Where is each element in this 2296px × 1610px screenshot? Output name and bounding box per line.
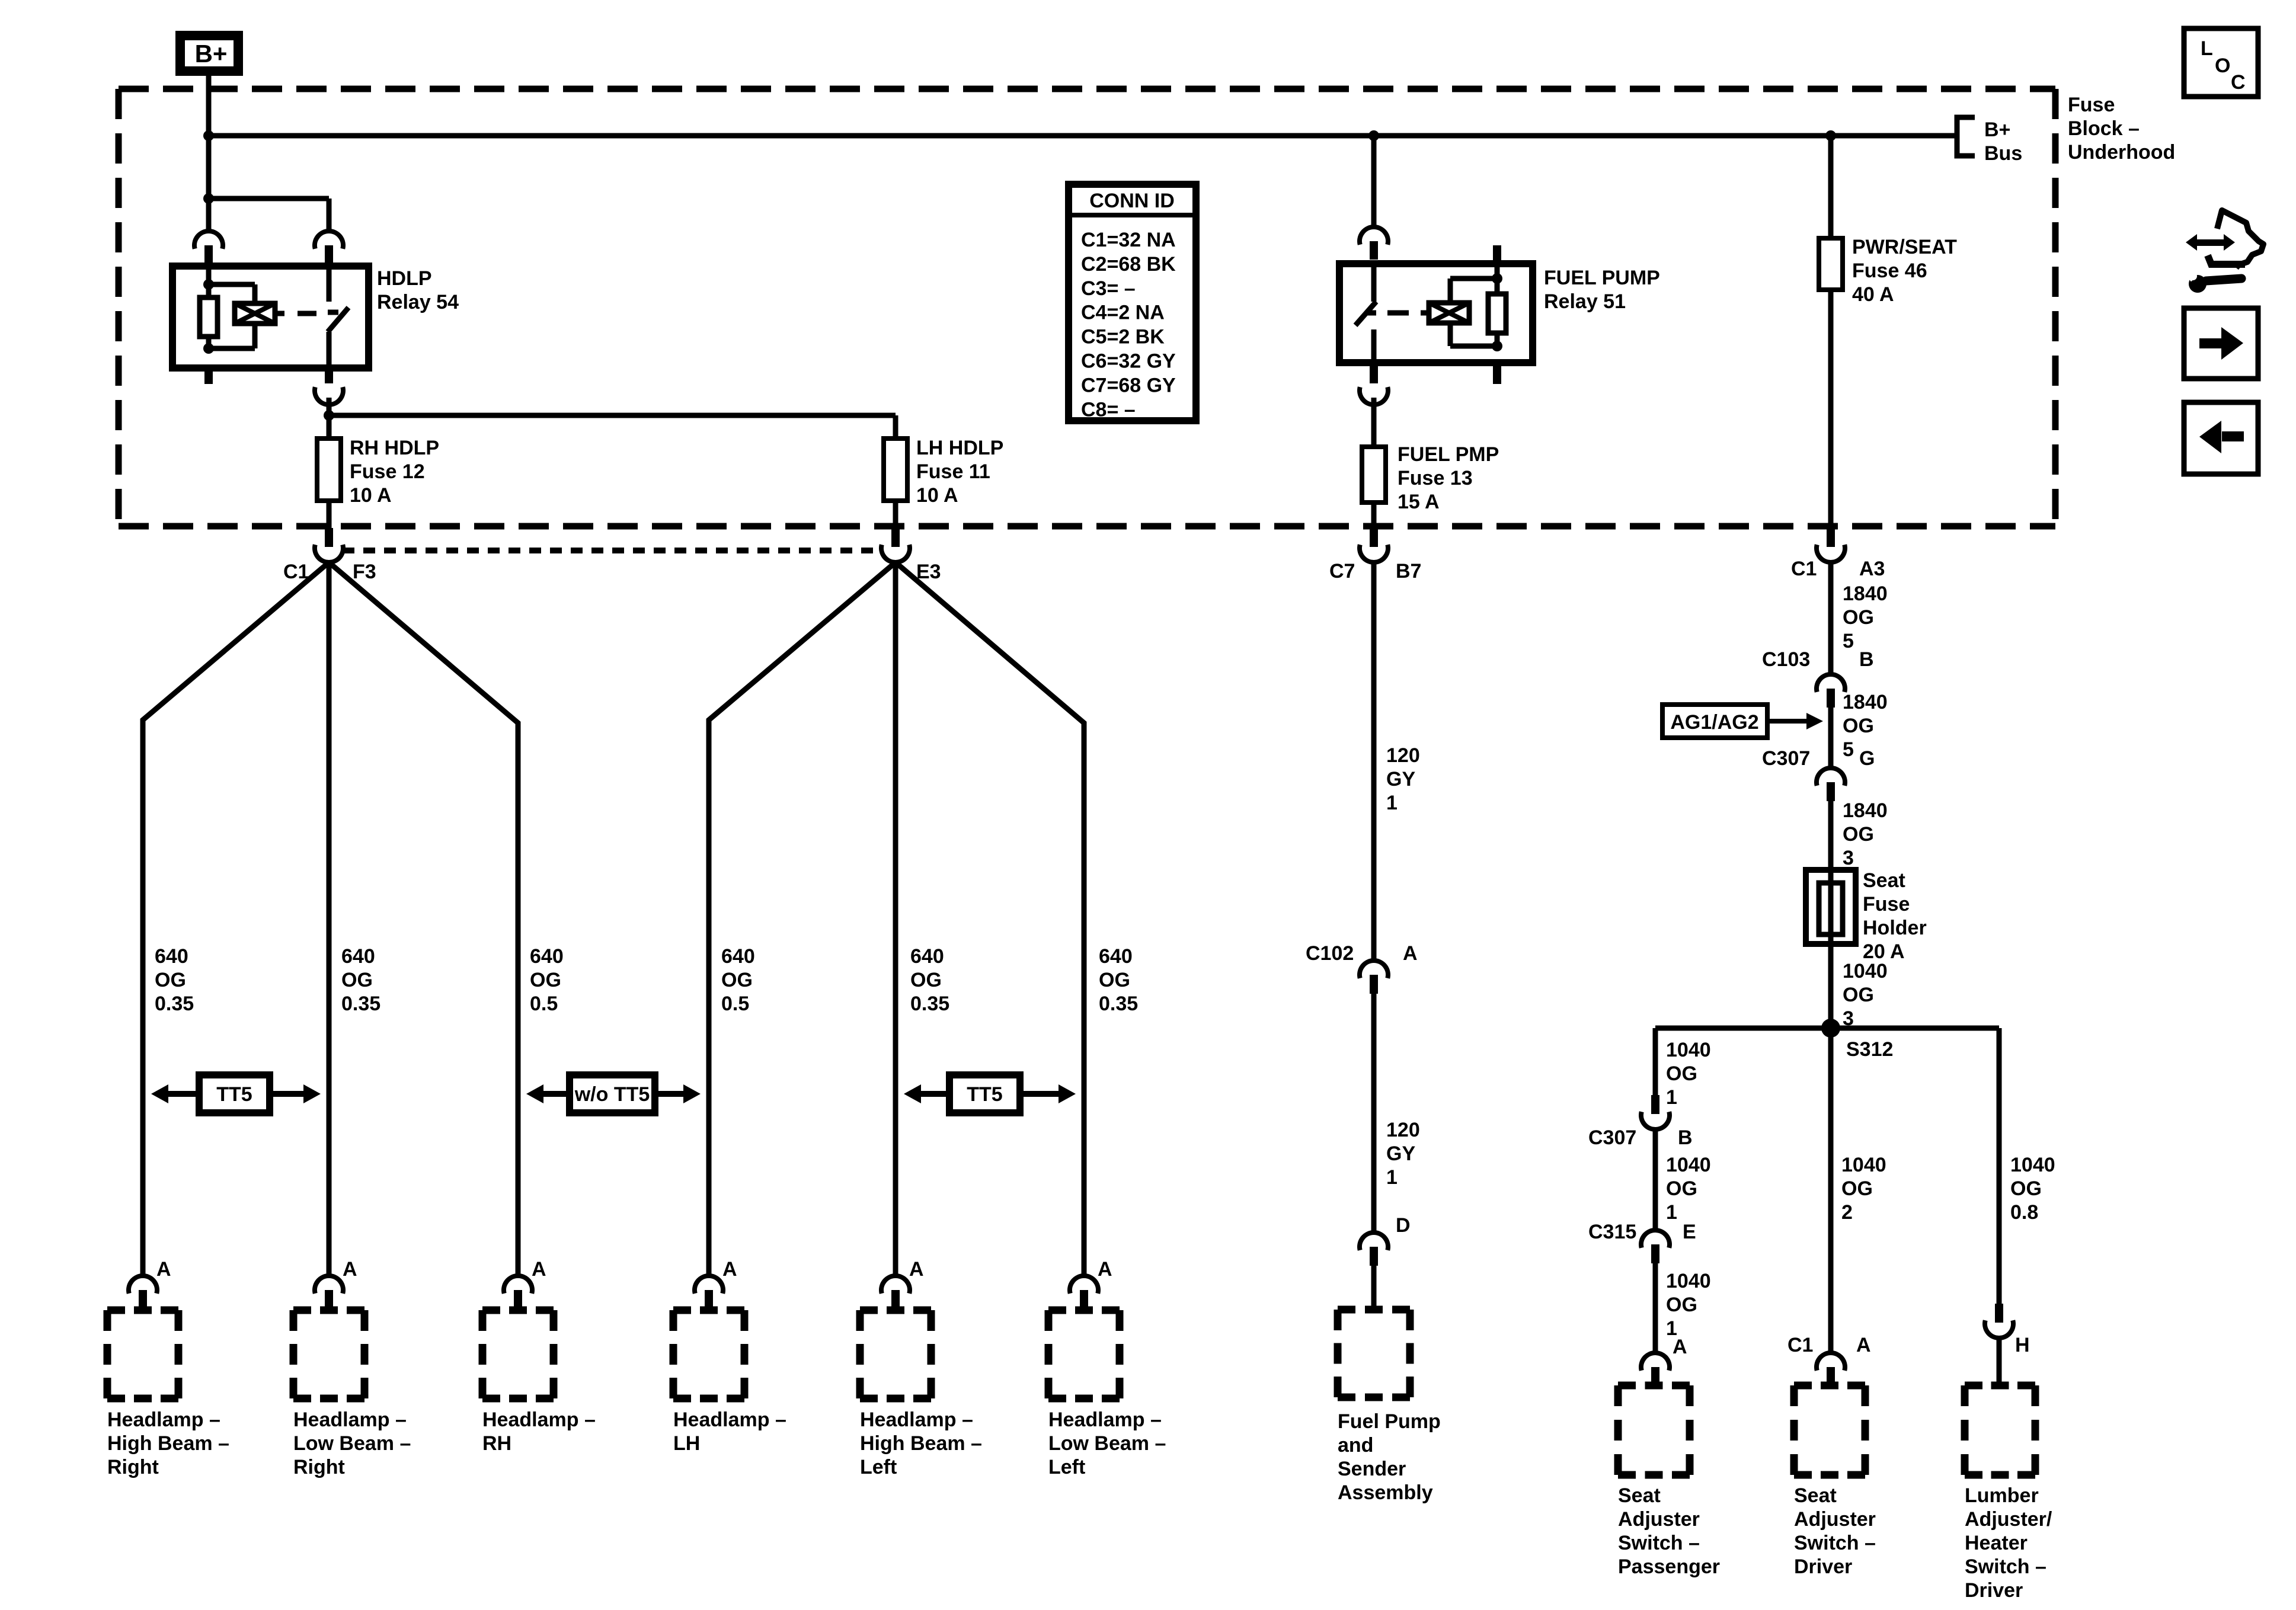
svg-text:C1=32 NA: C1=32 NA	[1081, 229, 1176, 251]
svg-text:10 A: 10 A	[350, 484, 392, 507]
connector C102 A	[1360, 961, 1388, 978]
svg-text:OG: OG	[721, 969, 753, 991]
main bus wire	[209, 133, 1955, 139]
option arrow w/o TT5	[541, 1091, 686, 1097]
svg-text:1840: 1840	[1843, 582, 1888, 605]
HDLP relay left pin stub below	[204, 364, 213, 384]
svg-text:640: 640	[721, 945, 755, 968]
svg-text:Headlamp –: Headlamp –	[107, 1409, 220, 1431]
svg-text:0.35: 0.35	[155, 993, 194, 1015]
dotted connector line C1-E3	[343, 548, 882, 553]
svg-text:5: 5	[1843, 738, 1854, 761]
svg-text:OG: OG	[1666, 1062, 1697, 1085]
wire headlamp low beam right	[327, 561, 332, 1276]
svg-text:C6=32 GY: C6=32 GY	[1081, 350, 1176, 373]
wire headlamp LH	[709, 562, 896, 1276]
component box Headlamp Low Beam Right	[293, 1310, 364, 1398]
resistor FUEL PUMP relay	[1488, 294, 1506, 333]
svg-text:OG: OG	[341, 969, 373, 991]
svg-text:Seat: Seat	[1794, 1484, 1837, 1507]
junction coil bottom	[1492, 341, 1502, 351]
previous-page arrow box	[2184, 402, 2258, 474]
svg-text:OG: OG	[1666, 1294, 1697, 1316]
svg-text:0.8: 0.8	[2010, 1201, 2038, 1224]
svg-text:Headlamp –: Headlamp –	[1048, 1409, 1162, 1431]
svg-text:Adjuster: Adjuster	[1618, 1508, 1700, 1531]
svg-text:High Beam –: High Beam –	[860, 1432, 982, 1455]
wire to seat fuse holder	[1828, 801, 1834, 1028]
svg-text:A: A	[1673, 1336, 1687, 1358]
junction B+/bus	[203, 130, 214, 141]
connector A Headlamp Low Beam Left	[1070, 1276, 1098, 1294]
wire headlamp high beam right	[143, 562, 329, 1276]
svg-text:C4=2 NA: C4=2 NA	[1081, 302, 1165, 324]
connector below FUEL PUMP relay	[1360, 387, 1388, 405]
svg-text:0.35: 0.35	[1099, 993, 1138, 1015]
svg-text:640: 640	[530, 945, 564, 968]
wire to passenger switch	[1653, 1263, 1658, 1353]
connector D	[1360, 1233, 1388, 1250]
component box Fuel Pump and Sender Assembly	[1338, 1310, 1410, 1397]
svg-text:A3: A3	[1859, 558, 1885, 580]
svg-text:120: 120	[1386, 1119, 1420, 1141]
HDLP relay coil-switch dashed link	[275, 311, 284, 316]
svg-text:C103: C103	[1762, 648, 1810, 671]
svg-text:OG: OG	[155, 969, 186, 991]
svg-text:OG: OG	[1843, 715, 1874, 737]
relay box HDLP Relay 54	[172, 266, 369, 368]
relay box FUEL PUMP Relay 51	[1339, 264, 1533, 363]
resistor HDLP relay	[200, 297, 218, 337]
svg-text:Assembly: Assembly	[1338, 1481, 1433, 1504]
fuse LH HDLP Fuse 11	[884, 438, 907, 501]
svg-text:0.35: 0.35	[910, 993, 949, 1015]
wire branch to relay switch pin	[209, 196, 329, 201]
svg-text:HDLP: HDLP	[377, 267, 432, 290]
svg-text:Bus: Bus	[1984, 142, 2022, 165]
svg-text:H: H	[2015, 1334, 2030, 1356]
svg-text:0.5: 0.5	[530, 993, 558, 1015]
svg-text:1040: 1040	[1843, 960, 1888, 982]
connector C1 F3	[325, 528, 333, 547]
svg-text:RH HDLP: RH HDLP	[350, 437, 439, 459]
svg-text:E: E	[1683, 1221, 1696, 1243]
HDLP relay switch fixed pin	[327, 270, 332, 302]
svg-text:Fuse 13: Fuse 13	[1398, 467, 1473, 489]
svg-text:OG: OG	[1843, 984, 1874, 1006]
FUEL PUMP relay switch output wire	[1371, 329, 1377, 363]
svg-text:OG: OG	[1099, 969, 1130, 991]
wire to C102	[1371, 561, 1377, 961]
fuse RH HDLP Fuse 12	[317, 438, 341, 501]
svg-text:Underhood: Underhood	[2068, 141, 2175, 164]
svg-text:GY: GY	[1386, 1142, 1415, 1165]
svg-text:F3: F3	[353, 561, 376, 583]
connector C307 G	[1817, 768, 1845, 786]
fuse PWR/SEAT Fuse 46	[1819, 238, 1843, 290]
fuse block underhood dashed border	[119, 89, 2055, 526]
svg-text:10 A: 10 A	[916, 484, 958, 507]
wire fuse 11 to E3	[893, 501, 898, 528]
svg-text:Driver: Driver	[1794, 1555, 1852, 1578]
next-page arrow box	[2184, 308, 2258, 379]
HDLP relay right pin below box	[325, 364, 333, 383]
svg-text:2: 2	[1841, 1201, 1853, 1224]
AG1/AG2 reference box	[1662, 705, 1767, 738]
connector C103 B	[1817, 674, 1845, 692]
wire to C307	[1828, 708, 1834, 768]
svg-text:1: 1	[1386, 1166, 1398, 1189]
svg-text:Fuse 12: Fuse 12	[350, 460, 425, 483]
svg-text:A: A	[722, 1258, 737, 1281]
svg-text:OG: OG	[910, 969, 942, 991]
svg-text:1: 1	[1666, 1201, 1677, 1224]
junction seat/bus	[1825, 130, 1836, 141]
splice S312	[1821, 1019, 1840, 1038]
svg-text:Fuel Pump: Fuel Pump	[1338, 1410, 1441, 1433]
svg-text:OG: OG	[2010, 1177, 2042, 1200]
svg-text:Sender: Sender	[1338, 1458, 1406, 1480]
svg-text:RH: RH	[482, 1432, 511, 1455]
FUEL PUMP relay right pin stub above	[1493, 245, 1501, 264]
svg-text:C2=68 BK: C2=68 BK	[1081, 253, 1176, 276]
wire fuse 46 to border	[1828, 290, 1834, 528]
svg-text:120: 120	[1386, 744, 1420, 767]
connector HDLP relay pin right	[315, 231, 343, 249]
wire junction to RH fuse	[327, 415, 332, 438]
svg-text:1840: 1840	[1843, 691, 1888, 713]
connector C307 B	[1651, 1095, 1659, 1114]
component box Headlamp High Beam Right	[107, 1310, 178, 1398]
svg-text:Fuse 46: Fuse 46	[1852, 260, 1927, 282]
svg-text:Headlamp –: Headlamp –	[293, 1409, 407, 1431]
component box Lumber Adjuster Heater Switch Driver	[1965, 1385, 2035, 1475]
svg-text:S312: S312	[1846, 1038, 1893, 1061]
svg-text:A: A	[156, 1258, 171, 1281]
svg-text:B7: B7	[1396, 560, 1421, 582]
svg-text:CONN ID: CONN ID	[1089, 190, 1175, 212]
svg-text:1: 1	[1666, 1086, 1677, 1109]
svg-text:15 A: 15 A	[1398, 491, 1440, 513]
service info icon outline	[2217, 210, 2263, 268]
svg-text:High Beam –: High Beam –	[107, 1432, 229, 1455]
svg-text:Low Beam –: Low Beam –	[1048, 1432, 1166, 1455]
svg-text:C: C	[2231, 71, 2246, 94]
wire to lumber switch	[1997, 1028, 2002, 1304]
svg-text:C1: C1	[1791, 558, 1817, 580]
svg-text:C1: C1	[1787, 1334, 1813, 1356]
svg-text:Switch –: Switch –	[1965, 1555, 2046, 1578]
component box Seat Adjuster Switch Driver	[1794, 1385, 1865, 1475]
svg-text:Block –: Block –	[2068, 117, 2140, 140]
HDLP relay switch blade	[328, 308, 348, 332]
svg-text:5: 5	[1843, 630, 1854, 652]
svg-text:OG: OG	[1841, 1177, 1873, 1200]
CONN ID table	[1069, 184, 1196, 421]
connector below HDLP relay	[315, 387, 343, 405]
svg-text:FUEL PUMP: FUEL PUMP	[1544, 267, 1660, 289]
wire to driver switch	[1828, 1028, 1834, 1353]
svg-text:Headlamp –: Headlamp –	[860, 1409, 973, 1431]
svg-text:A: A	[532, 1258, 546, 1281]
junction HDLP branch	[203, 193, 214, 204]
FUEL PUMP relay coil-switch dashed link	[1421, 311, 1429, 316]
svg-text:Fuse 11: Fuse 11	[916, 460, 990, 483]
svg-text:C8= –: C8= –	[1081, 398, 1136, 421]
svg-text:A: A	[1403, 942, 1418, 965]
svg-text:Adjuster/: Adjuster/	[1965, 1508, 2052, 1531]
svg-text:Relay 54: Relay 54	[377, 291, 459, 313]
svg-text:C5=2 BK: C5=2 BK	[1081, 326, 1165, 348]
coil HDLP relay	[235, 303, 275, 324]
svg-text:Low Beam –: Low Beam –	[293, 1432, 411, 1455]
svg-text:Relay 51: Relay 51	[1544, 290, 1626, 313]
svg-text:LH HDLP: LH HDLP	[916, 437, 1003, 459]
service info icon double arrow	[2186, 234, 2235, 251]
svg-text:1: 1	[1386, 792, 1398, 814]
B+ power symbol	[180, 36, 238, 71]
svg-text:A: A	[1856, 1334, 1871, 1356]
svg-text:O: O	[2215, 55, 2230, 77]
fuse FUEL PMP Fuse 13	[1362, 447, 1386, 502]
svg-text:C307: C307	[1588, 1126, 1636, 1149]
wire relay to junction	[327, 398, 332, 415]
svg-text:D: D	[1396, 1214, 1411, 1237]
svg-text:640: 640	[155, 945, 188, 968]
svg-text:1040: 1040	[1666, 1270, 1711, 1292]
svg-text:Seat: Seat	[1618, 1484, 1661, 1507]
svg-text:Passenger: Passenger	[1618, 1555, 1720, 1578]
connector A Headlamp High Beam Right	[129, 1276, 157, 1294]
junction fuel pump/bus	[1368, 130, 1379, 141]
junction coil top	[1492, 273, 1502, 284]
component box Headlamp LH	[673, 1310, 744, 1398]
connector FUEL PUMP relay pin left	[1360, 227, 1388, 245]
svg-text:OG: OG	[1843, 823, 1874, 846]
connector A driver switch	[1817, 1353, 1845, 1371]
svg-text:Driver: Driver	[1965, 1579, 2023, 1602]
svg-text:Switch –: Switch –	[1618, 1532, 1700, 1554]
FUEL PUMP relay coil branch wires	[1495, 264, 1500, 279]
svg-text:0.5: 0.5	[721, 993, 749, 1015]
svg-text:C315: C315	[1588, 1221, 1636, 1243]
svg-text:B+: B+	[195, 40, 228, 68]
svg-text:OG: OG	[530, 969, 561, 991]
component box Headlamp Low Beam Left	[1048, 1310, 1120, 1398]
svg-text:and: and	[1338, 1434, 1373, 1457]
service info icon wrench	[2206, 279, 2241, 281]
svg-text:Left: Left	[860, 1456, 897, 1478]
junction coil bottom	[203, 343, 214, 354]
svg-text:1040: 1040	[1841, 1154, 1886, 1176]
svg-text:FUEL PMP: FUEL PMP	[1398, 443, 1499, 466]
wire to C103	[1828, 561, 1834, 674]
HDLP relay switch output wire	[327, 332, 332, 364]
FUEL PUMP relay switch blade	[1355, 302, 1376, 325]
svg-text:Left: Left	[1048, 1456, 1085, 1478]
connector C7 B7	[1370, 528, 1378, 547]
svg-text:1840: 1840	[1843, 799, 1888, 822]
svg-text:AG1/AG2: AG1/AG2	[1670, 711, 1758, 734]
LOC reference box	[2184, 28, 2258, 97]
svg-text:3: 3	[1843, 847, 1854, 869]
connector A Headlamp High Beam Left	[881, 1276, 910, 1294]
svg-text:C3= –: C3= –	[1081, 277, 1136, 300]
connector HDLP relay pin left	[194, 231, 223, 249]
B+ Bus bracket	[1957, 117, 1975, 156]
svg-text:640: 640	[910, 945, 944, 968]
option arrow TT5 left	[918, 1091, 1061, 1097]
svg-text:Fuse: Fuse	[2068, 94, 2115, 116]
FUEL PUMP relay left pin below box	[1370, 363, 1378, 383]
svg-text:LH: LH	[673, 1432, 700, 1455]
connector A passenger switch	[1641, 1353, 1670, 1371]
wire fuse 13 to border	[1371, 502, 1377, 528]
svg-text:G: G	[1859, 747, 1875, 770]
svg-text:Seat: Seat	[1863, 869, 1905, 892]
AG1/AG2 arrow	[1767, 719, 1806, 724]
wire headlamp low beam left	[896, 562, 1084, 1276]
svg-text:B: B	[1859, 648, 1874, 671]
wire headlamp RH	[329, 562, 518, 1276]
connector A Headlamp Low Beam Right	[315, 1276, 343, 1294]
svg-text:1040: 1040	[2010, 1154, 2055, 1176]
wire to D	[1371, 994, 1377, 1233]
svg-text:640: 640	[341, 945, 375, 968]
svg-text:C7=68 GY: C7=68 GY	[1081, 374, 1176, 396]
FUEL PUMP relay right pin stub below	[1493, 363, 1501, 384]
svg-text:B+: B+	[1984, 119, 2010, 141]
FUEL PUMP relay switch fixed pin	[1371, 267, 1377, 302]
svg-text:Right: Right	[293, 1456, 345, 1478]
svg-text:Adjuster: Adjuster	[1794, 1508, 1876, 1531]
svg-text:L: L	[2201, 37, 2213, 60]
option arrow TT5 right	[165, 1091, 306, 1097]
wire bus to fuel pump relay	[1371, 136, 1377, 228]
connector H	[1995, 1304, 2003, 1323]
wire bus to fuse 46	[1828, 136, 1834, 238]
coil FUEL PUMP relay	[1429, 303, 1469, 323]
connector A Headlamp RH	[504, 1276, 532, 1294]
connector C1 A3	[1827, 528, 1835, 547]
wire junction to LH fuse	[329, 413, 896, 418]
svg-text:GY: GY	[1386, 768, 1415, 790]
svg-text:OG: OG	[1666, 1177, 1697, 1200]
component box Headlamp High Beam Left	[860, 1310, 931, 1398]
svg-text:B: B	[1678, 1126, 1693, 1149]
HDLP relay coil branch wires	[206, 266, 212, 284]
svg-text:TT5: TT5	[216, 1083, 252, 1106]
wire to C307 passenger	[1653, 1028, 1658, 1095]
component box Headlamp RH	[482, 1310, 554, 1398]
connector A Headlamp LH	[695, 1276, 723, 1294]
svg-text:640: 640	[1099, 945, 1133, 968]
svg-text:C307: C307	[1762, 747, 1810, 770]
svg-text:C7: C7	[1329, 560, 1355, 582]
service info icon step	[2208, 255, 2245, 264]
wire relay to fuse 13	[1371, 398, 1377, 447]
wire fuse 12 to C1/F3	[327, 501, 332, 528]
svg-text:A: A	[343, 1258, 357, 1281]
svg-text:Fuse: Fuse	[1863, 893, 1910, 916]
svg-text:1040: 1040	[1666, 1154, 1711, 1176]
wire H to lumber switch	[1997, 1337, 2002, 1385]
wire splice crossbar	[1655, 1026, 1999, 1031]
svg-text:Lumber: Lumber	[1965, 1484, 2039, 1507]
svg-text:Heater: Heater	[1965, 1532, 2028, 1554]
svg-text:PWR/SEAT: PWR/SEAT	[1852, 236, 1957, 258]
svg-text:Headlamp –: Headlamp –	[482, 1409, 596, 1431]
wire to fuel pump assembly	[1371, 1266, 1377, 1310]
component box Seat Adjuster Switch Passenger	[1618, 1385, 1690, 1475]
wire headlamp high beam left	[893, 561, 898, 1276]
svg-text:Right: Right	[107, 1456, 159, 1478]
svg-text:Headlamp –: Headlamp –	[673, 1409, 786, 1431]
svg-text:w/o TT5: w/o TT5	[574, 1083, 650, 1106]
svg-text:TT5: TT5	[967, 1083, 1002, 1106]
svg-text:1040: 1040	[1666, 1039, 1711, 1061]
junction fuse feed	[324, 410, 334, 421]
wire B+ feed down	[206, 76, 212, 232]
wire to C315	[1653, 1128, 1658, 1230]
svg-text:0.35: 0.35	[341, 993, 380, 1015]
Seat Fuse Holder 20 A	[1806, 870, 1856, 944]
svg-text:A: A	[909, 1258, 924, 1281]
svg-text:C102: C102	[1306, 942, 1354, 965]
svg-text:Holder: Holder	[1863, 917, 1927, 939]
connector E3	[891, 528, 900, 547]
svg-text:40 A: 40 A	[1852, 283, 1894, 306]
svg-text:OG: OG	[1843, 606, 1874, 629]
connector C315 E	[1641, 1230, 1670, 1248]
junction coil top	[203, 279, 214, 290]
svg-text:Switch –: Switch –	[1794, 1532, 1876, 1554]
svg-text:A: A	[1098, 1258, 1112, 1281]
